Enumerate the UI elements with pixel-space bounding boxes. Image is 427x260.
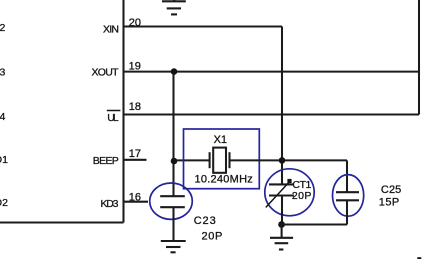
wire C25 top vertical — [346, 160, 348, 192]
wire CT1 bottom vertical — [281, 196, 283, 225]
capacitor C23 plates — [160, 196, 185, 207]
wire pin20 XIN horizontal — [124, 25, 283, 27]
svg-text:20P: 20P — [292, 190, 312, 202]
capacitor C25 circle — [333, 175, 364, 217]
wire C25 bottom vertical — [346, 200, 348, 224]
ground top — [162, 0, 186, 14]
svg-text:20P: 20P — [202, 231, 223, 243]
junction dot crystal left node — [171, 158, 178, 165]
svg-text:2: 2 — [0, 22, 6, 34]
ground below CT1 — [270, 238, 293, 250]
trimmer CT1 arrowhead — [287, 179, 291, 183]
svg-text:D1: D1 — [0, 154, 8, 166]
svg-text:18: 18 — [129, 101, 141, 113]
svg-text:4: 4 — [0, 111, 6, 123]
svg-text:KD3: KD3 — [101, 198, 119, 210]
svg-text:17: 17 — [129, 148, 141, 160]
svg-text:3: 3 — [0, 67, 6, 79]
wire crystal row horizontal right — [230, 159, 348, 161]
trimmer CT1 arrow diagonal — [266, 181, 291, 208]
junction dot XOUT node — [171, 68, 178, 75]
crystal X1 blue box — [184, 129, 260, 189]
svg-text:XOUT: XOUT — [92, 67, 120, 79]
IC U1 bottom edge — [0, 221, 124, 223]
capacitor C23 circle — [150, 183, 193, 219]
svg-text:BEEP: BEEP — [93, 155, 119, 167]
trimmer capacitor CT1 circle — [265, 169, 314, 216]
wire crystal row horizontal left — [174, 159, 210, 161]
trimmer CT1 plates — [269, 184, 294, 195]
wire pin16 KD3 stub — [124, 201, 149, 203]
wire pin17 BEEP stub — [124, 159, 147, 161]
wire pin19 XOUT horizontal — [124, 71, 420, 73]
svg-text:C23: C23 — [194, 215, 216, 227]
svg-text:D2: D2 — [0, 197, 8, 209]
junction dot ground node — [278, 221, 285, 228]
ground tick bottom right (clipped) — [417, 257, 421, 259]
svg-text:UL: UL — [107, 112, 119, 124]
crystal X1 symbol — [210, 148, 230, 173]
svg-text:15P: 15P — [379, 196, 399, 208]
wire C23 bottom to ground — [172, 207, 174, 241]
wire XIN vertical x=282 down to CT1 — [281, 27, 283, 185]
svg-text:XIN: XIN — [103, 23, 119, 35]
svg-text:C25: C25 — [381, 184, 401, 196]
overline of UL — [107, 110, 121, 112]
svg-text:10.240MHz: 10.240MHz — [195, 173, 253, 185]
wire right vertical to top edge — [418, 0, 420, 115]
IC U1 right edge — [122, 0, 124, 223]
wire XOUT vertical x=173.5 down to C23 — [172, 72, 174, 197]
capacitor C25 plates — [336, 192, 359, 200]
wire pin18 UL horizontal — [124, 113, 420, 115]
svg-text:X1: X1 — [214, 134, 227, 146]
wire ground stub below dot — [281, 225, 283, 238]
wire ground row horizontal — [282, 223, 347, 225]
junction dot crystal right node — [279, 157, 286, 164]
ground below C23 — [161, 241, 186, 252]
